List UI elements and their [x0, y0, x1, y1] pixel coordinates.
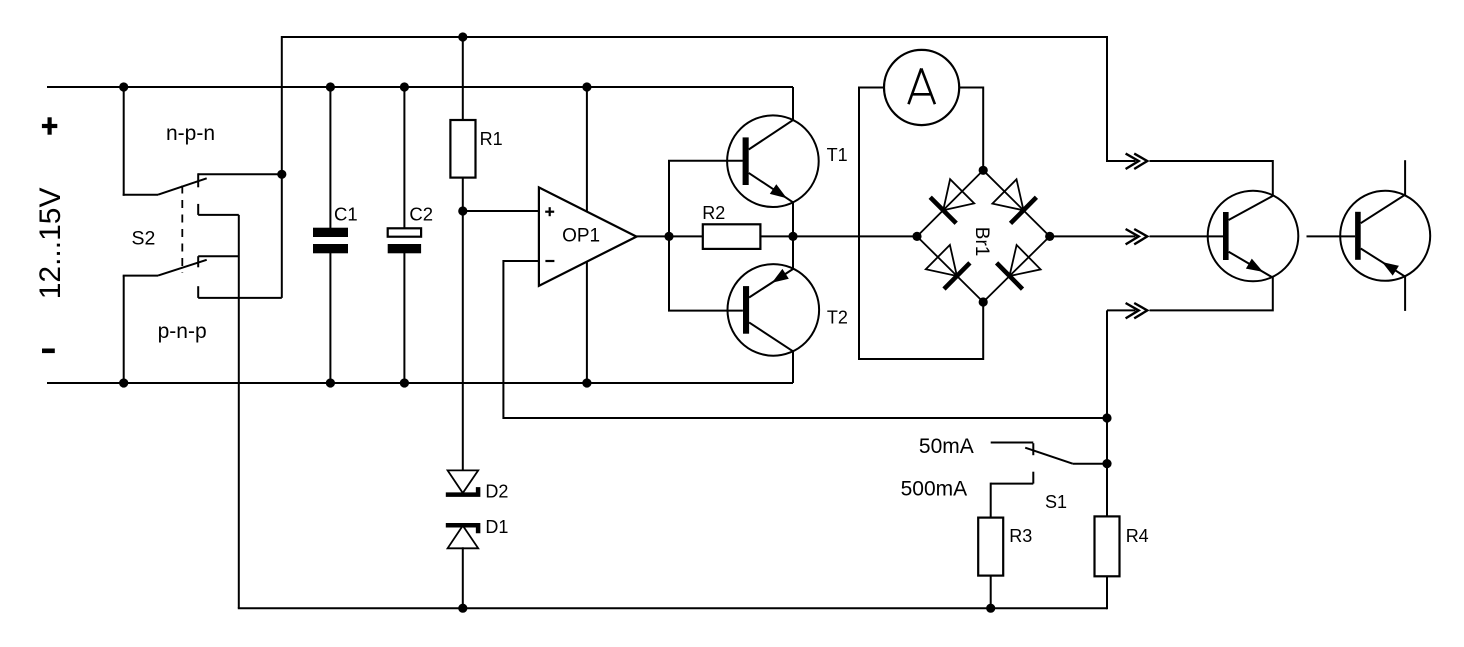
svg-text:R4: R4 [1126, 526, 1149, 546]
junction node 7 [400, 378, 409, 387]
wire -12V rail [47, 382, 793, 384]
switch S2 mechanical link [181, 186, 183, 274]
zener D1 triangle [448, 526, 479, 549]
svg-text:Br1: Br1 [971, 227, 992, 257]
wire bridge to DUT base [1050, 235, 1136, 237]
DUT pnp emitter [1361, 249, 1405, 277]
svg-text:50mA: 50mA [919, 435, 974, 458]
wire +12V rail [47, 86, 793, 88]
junction node 15 [912, 232, 921, 241]
junction node 9 [458, 206, 467, 215]
wire R3 branch [990, 483, 992, 609]
wire top rail left drop [281, 36, 283, 174]
connector chevron top [1126, 154, 1139, 169]
DUT npn collector [1229, 196, 1273, 220]
wire bottom socket lead [1150, 277, 1273, 310]
switch S2 top pole blade [158, 178, 207, 194]
capacitor C2 top wire [403, 87, 405, 229]
capacitor C1 top wire [329, 87, 331, 228]
DUT npn base bar [1223, 212, 1229, 260]
DUT npn emitter arrow [1246, 259, 1263, 272]
resistor R1 [450, 120, 475, 178]
DUT pnp base bar [1355, 212, 1361, 260]
switch S2 bottom pole blade [158, 260, 207, 276]
zener D2 triangle [448, 470, 479, 493]
junction node 10 [458, 604, 467, 613]
junction node 6 [400, 82, 409, 91]
label - terminal [42, 348, 55, 353]
wire emitter return vertical [238, 215, 240, 608]
connector chevron bottom [1126, 303, 1139, 318]
DUT pnp circle [1340, 191, 1430, 281]
capacitor C2 bottom wire [403, 253, 405, 383]
wire op-amp output line [636, 235, 917, 237]
transistor T1 circle [727, 115, 819, 207]
junction node 18 [1045, 232, 1054, 241]
transistor T1 base bar [743, 137, 749, 185]
bridge diode bottom-right [997, 263, 1023, 289]
zener D2 cathode bar [446, 487, 478, 495]
label + terminal [47, 117, 51, 134]
DUT npn emitter [1229, 252, 1273, 278]
svg-text:T2: T2 [827, 308, 848, 328]
switch S1 50mA contact [991, 442, 1034, 444]
DUT pnp base wire [1307, 235, 1356, 237]
svg-text:C1: C1 [334, 203, 358, 224]
wire + input [463, 210, 539, 212]
wire op-amp supply [586, 87, 588, 383]
junction node 5 [326, 378, 335, 387]
junction node 14 [788, 232, 797, 241]
transistor T2 emitter [749, 269, 793, 298]
switch S2 bottom throw contact [197, 286, 199, 298]
wire base feed vertical [669, 161, 743, 311]
wire D1 to bottom [462, 547, 464, 608]
switch S2 top throw contact [198, 173, 282, 175]
svg-text:OP1: OP1 [562, 225, 600, 246]
junction node 4 [326, 82, 335, 91]
op-amp - marker [545, 260, 554, 262]
junction node 17 [979, 297, 988, 306]
resistor R4 [1095, 516, 1120, 576]
DUT pnp emitter arrow [1382, 262, 1399, 276]
op-amp + marker [549, 207, 551, 216]
svg-text:S1: S1 [1045, 492, 1067, 512]
wire right sense vertical [1106, 310, 1108, 609]
svg-text:n-p-n: n-p-n [166, 122, 215, 145]
svg-text:R1: R1 [480, 129, 503, 149]
svg-text:12...15V: 12...15V [34, 188, 67, 300]
switch S1 500mA contact [1032, 472, 1034, 484]
switch S2 pole2 upper throw contact [198, 255, 239, 257]
junction node 1 [119, 82, 128, 91]
transistor T2 base bar [743, 286, 749, 334]
resistor R2 [703, 224, 761, 249]
ammeter circle [884, 50, 959, 125]
connector chevron middle [1126, 229, 1139, 244]
wire R1 top [462, 36, 464, 121]
svg-text:p-n-p: p-n-p [158, 320, 207, 343]
DUT pnp collector [1361, 195, 1405, 223]
junction node 8 [458, 32, 467, 41]
wire S2 common vertical [281, 174, 283, 298]
svg-text:T1: T1 [827, 145, 848, 165]
junction node 19 [1102, 413, 1111, 422]
junction node 2 [119, 378, 128, 387]
wire emitter return bottom [238, 607, 1107, 609]
wire ammeter loop right [959, 88, 983, 171]
resistor R3 [978, 518, 1003, 576]
junction node 21 [986, 604, 995, 613]
transistor T2 collector [749, 322, 793, 351]
switch S2 top pole pivot wire [123, 87, 125, 196]
ammeter A glyph [909, 68, 922, 104]
svg-text:R3: R3 [1009, 526, 1032, 546]
junction node 12 [582, 378, 591, 387]
transistor T2 emitter arrow [772, 269, 789, 283]
zener D1 cathode bar [446, 525, 478, 533]
junction node 13 [664, 232, 673, 241]
bridge diode top-left [930, 197, 956, 223]
svg-text:C2: C2 [409, 203, 433, 224]
switch S2 bottom pole pivot wire [123, 275, 158, 277]
capacitor C2 plates [388, 228, 421, 236]
wire ammeter loop left [859, 88, 983, 360]
wire feedback from op-amp [503, 261, 1107, 418]
svg-text:R2: R2 [702, 203, 725, 223]
transistor T1 emitter arrow [770, 184, 787, 198]
svg-text:S2: S2 [132, 227, 156, 249]
wire top socket lead [1107, 36, 1136, 161]
transistor T2 circle [728, 264, 820, 356]
op-amp OP1 triangle [539, 187, 637, 285]
junction node 3 [277, 170, 286, 179]
switch S1 blade [1025, 448, 1073, 464]
transistor T1 emitter [749, 173, 793, 202]
junction node 11 [582, 82, 591, 91]
switch S2 pole1 lower throw contact [197, 204, 199, 215]
junction node 20 [1102, 459, 1111, 468]
wire R1 to D2 [462, 177, 464, 471]
bridge Br1 diamond [917, 170, 1050, 302]
bridge diode bottom-left [944, 263, 970, 289]
capacitor C1 bottom wire [329, 253, 331, 383]
wire top collector rail [282, 36, 1107, 38]
svg-text:D1: D1 [485, 517, 508, 537]
bridge diode top-right [1011, 197, 1037, 223]
DUT npn circle [1208, 191, 1299, 282]
svg-text:500mA: 500mA [901, 477, 968, 500]
capacitor C1 plates [313, 228, 348, 237]
svg-text:D2: D2 [485, 481, 508, 501]
junction node 16 [979, 166, 988, 175]
transistor T1 collector [749, 120, 793, 149]
